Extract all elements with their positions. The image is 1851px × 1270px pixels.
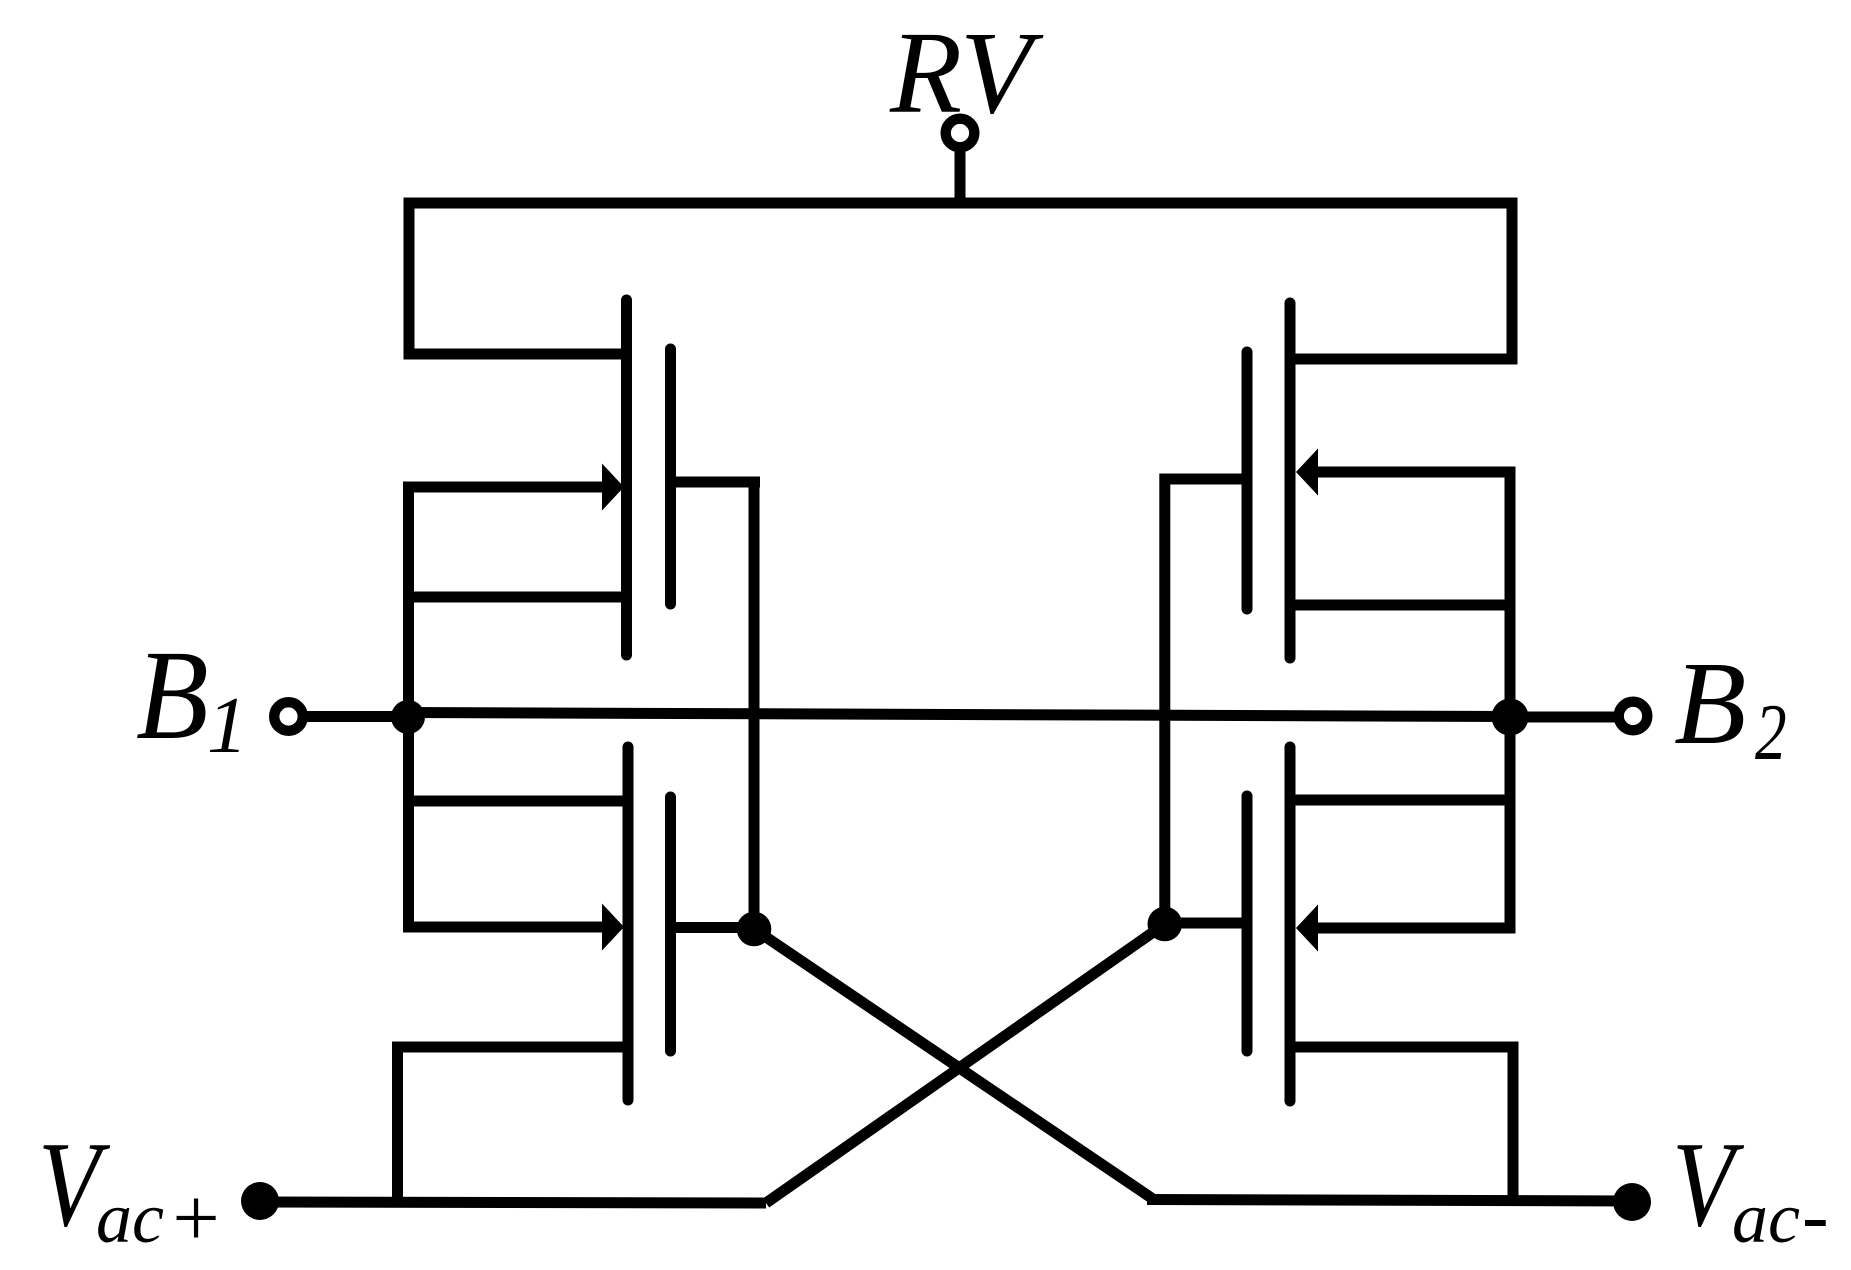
wire M2 source vertical [392, 1042, 403, 1203]
wire M3 bulk lead [1316, 467, 1516, 478]
wire bottom right rail Vac- [1147, 1200, 1632, 1202]
wire left mid rail (bulk/source/B1 to M2) [403, 482, 414, 933]
wire M1 drain lead [404, 349, 631, 360]
node G1 junction dot [737, 912, 772, 947]
wire G2 gate vertical [1159, 474, 1170, 925]
wire M4 bulk lead [1316, 923, 1514, 934]
svg-text:ac: ac [96, 1178, 164, 1258]
wire RV stub [955, 150, 966, 208]
transistor Q4 bulk arrow [1296, 905, 1318, 952]
node G2 junction dot [1148, 907, 1183, 942]
wire diagonal A (Vac+ corner to G2) [766, 924, 1165, 1203]
wire M1 source lead [403, 592, 630, 603]
wire bottom left rail Vac+ [260, 1202, 766, 1203]
svg-text:B: B [136, 624, 209, 766]
terminal B2 open circle [1619, 702, 1648, 731]
wire B2 terminal lead [1510, 712, 1617, 723]
wire left top vertical (M1 drain to rail) [404, 198, 415, 355]
transistor Q1 bulk arrow [602, 464, 624, 511]
transistor Q4 channel bar [1285, 747, 1296, 1101]
transistor Q3 bulk arrow [1296, 449, 1318, 496]
wire M3 source lead [1285, 600, 1516, 611]
wire M3 drain lead [1285, 354, 1518, 365]
wire M2 bulk lead [403, 922, 606, 933]
svg-text:RV: RV [889, 7, 1044, 138]
transistor Q4 gate bar [1242, 796, 1253, 1051]
wire B1 terminal lead [303, 711, 408, 722]
wire right top vertical (M3 drain to rail) [1507, 198, 1518, 365]
wire M1 gate lead [671, 477, 761, 488]
wire top rail RV bus [404, 198, 1518, 209]
wire M4 source lead [1285, 1042, 1519, 1053]
svg-text:B: B [1674, 637, 1746, 769]
transistor Q3 gate bar [1242, 352, 1253, 609]
terminal Vac- dot [1613, 1183, 1651, 1221]
wire M2 source lead [392, 1042, 631, 1053]
wire diagonal B (G1 to Vac- corner) [754, 929, 1153, 1199]
wire B1 to B2 bus [408, 713, 1510, 717]
wire M2 drain lead [403, 796, 631, 807]
transistor Q2 bulk arrow [602, 904, 624, 951]
wire M4 drain lead [1285, 795, 1515, 806]
wire M3 gate lead [1165, 474, 1248, 485]
wire right mid rail (bulk/source/B2 to M4) [1505, 467, 1516, 934]
wire M4 source vertical [1508, 1042, 1519, 1201]
wire M1 bulk lead [403, 482, 606, 493]
svg-text:+: + [167, 1172, 224, 1265]
transistor Q2 gate bar [665, 797, 676, 1051]
transistor Q2 channel bar [623, 747, 634, 1100]
wire M2 gate lead [671, 922, 755, 933]
svg-text:2: 2 [1755, 688, 1787, 777]
wire G1 gate vertical [749, 477, 760, 929]
transistor Q1 channel bar [621, 300, 632, 655]
terminal B1 open circle [274, 702, 303, 731]
node B2 junction dot [1492, 699, 1529, 736]
svg-text:1: 1 [207, 680, 248, 770]
terminal RV open circle [946, 119, 975, 148]
svg-text:-: - [1802, 1172, 1829, 1260]
transistor Q3 channel bar [1285, 303, 1296, 658]
svg-text:ac: ac [1732, 1178, 1800, 1258]
wire M4 gate lead [1164, 918, 1247, 929]
node B1 junction dot [391, 700, 425, 734]
terminal Vac+ dot [241, 1182, 279, 1220]
transistor Q1 gate bar [665, 349, 676, 604]
